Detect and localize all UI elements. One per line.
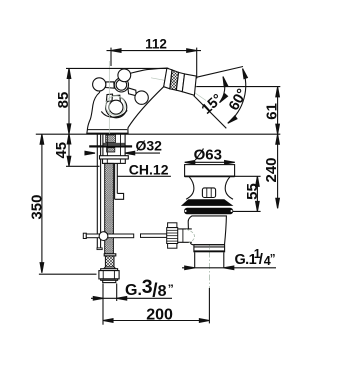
faucet base plinth line (87, 129, 127, 131)
hose braid (105, 256, 114, 267)
shank seal thick band (89, 145, 132, 147)
spout ring1 (164, 68, 172, 89)
svg-text:Ø63: Ø63 (194, 146, 222, 163)
svg-text:G.: G. (125, 282, 142, 299)
locknut (103, 159, 126, 163)
drain knob (202, 188, 215, 198)
threaded rod (105, 163, 114, 253)
shank outer (102, 134, 104, 155)
drain port (178, 229, 192, 242)
svg-text:3: 3 (142, 276, 153, 298)
handle bottom ball (109, 100, 123, 114)
dim 200 (103, 320, 209, 322)
svg-text:61: 61 (263, 103, 280, 120)
drain dome right (225, 177, 233, 199)
faucet body silhouette (87, 68, 167, 134)
drain centerline (208, 217, 210, 288)
arc 60deg (228, 69, 246, 124)
handle ring (114, 78, 128, 92)
dim 85 (68, 68, 70, 133)
handle right ball (135, 91, 148, 104)
dim 240 (277, 134, 279, 208)
svg-text:55: 55 (244, 183, 261, 200)
svg-text:85: 85 (55, 92, 72, 109)
handle left arm (106, 82, 115, 88)
dim 112 (107, 50, 202, 52)
faucet vertical centerline (108, 61, 110, 134)
mounting strap (96, 134, 98, 248)
svg-text:60°: 60° (226, 86, 251, 113)
handle top ball (118, 69, 131, 82)
knurled nut (168, 223, 177, 228)
label CH12 leader (117, 175, 170, 177)
drain cup (188, 216, 226, 245)
hose collar (104, 254, 116, 256)
dim 350 (41, 134, 43, 273)
svg-text:112: 112 (145, 37, 167, 52)
dim 45 (68, 134, 70, 166)
bonnet ring circle (106, 97, 127, 118)
svg-text:350: 350 (29, 195, 46, 220)
svg-text:Ø32: Ø32 (136, 138, 163, 154)
drain dome left (186, 177, 194, 199)
g38 nut hex (99, 271, 119, 279)
g38 nut chamfer (101, 269, 118, 271)
bonnet outer rim arc (101, 110, 127, 117)
drain flange (185, 165, 235, 177)
popup rod left (83, 233, 86, 238)
drain cone gasket (181, 199, 234, 206)
hose flare (104, 267, 116, 269)
svg-text:45: 45 (53, 142, 70, 159)
drain tailpiece (194, 252, 196, 267)
shank hatch block 2 (107, 148, 115, 152)
dim G114 leader (182, 267, 276, 269)
popup plate bar (114, 163, 116, 199)
svg-text:240: 240 (263, 157, 280, 182)
bonnet construction circle (106, 96, 125, 115)
dim 61 (277, 87, 279, 135)
wire: outlet horizontal reference line (195, 86, 280, 88)
svg-text:”: ” (168, 282, 174, 296)
svg-text:CH.12: CH.12 (129, 162, 169, 178)
handle left ball (93, 78, 106, 91)
angle ray lower 60deg (194, 96, 227, 129)
drain washer (184, 208, 233, 215)
spout knurl band (170, 70, 179, 90)
handle right arm (128, 88, 136, 96)
rod ball joint (99, 232, 108, 241)
drain bottom flange band (194, 244, 225, 246)
arc 15deg (220, 77, 225, 103)
spout aerator cone (182, 74, 196, 95)
popup rod right (141, 234, 167, 238)
svg-text:8: 8 (158, 283, 167, 300)
svg-text:”: ” (270, 254, 276, 266)
dim O32 (86, 152, 95, 154)
washer flange (100, 156, 129, 159)
spout axis centerline (151, 78, 197, 86)
angle ray upper 15deg (197, 67, 243, 78)
svg-text:200: 200 (146, 306, 173, 323)
shank hatch block 1 (106, 135, 116, 143)
handle collar (106, 94, 113, 101)
handle bottom arm (112, 95, 120, 101)
wire: deck reference line (36, 133, 280, 135)
svg-text:15°: 15° (199, 91, 226, 118)
dim O63 (185, 161, 235, 163)
dim 55 (256, 176, 258, 211)
dim G38 (102, 284, 104, 325)
spout ring2 (176, 72, 184, 91)
